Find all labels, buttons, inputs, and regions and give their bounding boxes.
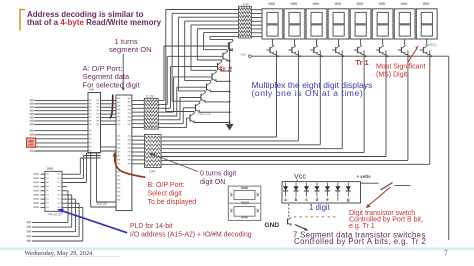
transistor QT8 digit driver	[420, 46, 432, 58]
label Tr 1	[356, 58, 369, 67]
curly arrow near A port label	[110, 95, 113, 119]
diode box - 7 segment LEDs of one digit	[282, 182, 361, 203]
7-segment display DS8	[414, 3, 437, 45]
svg-text:Controlled by Port A bits, e.g: Controlled by Port A bits, e.g. Tr 2	[294, 237, 426, 246]
svg-text:PLD for 14-bit: PLD for 14-bit	[130, 223, 173, 230]
IC U3 PLD address decoder	[34, 171, 67, 211]
label Vcc	[294, 172, 306, 181]
wire - control L down from U1 (left)	[91, 153, 116, 207]
transistor Q3 segment driver 2N2222	[178, 17, 238, 103]
label Most Significant (MS) Digit	[376, 64, 425, 79]
svg-text:0 turns digit: 0 turns digit	[200, 171, 236, 178]
transistor QT7 digit driver	[398, 46, 410, 58]
curly arrow near B port label	[113, 152, 146, 178]
label Tr 2	[219, 65, 233, 74]
svg-text:e.g. Tr 1: e.g. Tr 1	[349, 223, 375, 230]
7-segment display DS5	[348, 3, 371, 45]
label - 1 turns segment ON	[109, 37, 152, 54]
resistor pack RP3 segment resistors	[239, 6, 262, 38]
blue arrow to PLD	[57, 209, 127, 233]
svg-text:B: O/P Port:: B: O/P Port:	[148, 182, 185, 189]
label U3	[47, 168, 53, 170]
black arrow to 7 segment caption	[295, 225, 309, 231]
label RP2 value	[149, 168, 156, 173]
svg-text:(MS) Digit: (MS) Digit	[376, 72, 407, 79]
svg-text:Wednesday, May 29, 2024: Wednesday, May 29, 2024	[25, 250, 94, 257]
label MSD	[425, 42, 437, 47]
svg-text:Vcc: Vcc	[294, 172, 306, 181]
IC U2 82C55 port chip	[116, 95, 132, 211]
svg-text:For selected digit: For selected digit	[83, 80, 141, 89]
svg-text:10K: 10K	[149, 168, 156, 173]
svg-text:2.2K: 2.2K	[146, 93, 155, 98]
wire - base staircase RP1 to segment transistors	[161, 46, 229, 128]
label 74LS under PLD	[48, 212, 62, 216]
label RP1 value 2.2K	[146, 93, 155, 98]
svg-text:1 digit: 1 digit	[309, 203, 331, 212]
wire from diode box to switch	[361, 182, 379, 184]
arrow from 0-turns label to RP2	[150, 153, 198, 171]
resistor pack RP2	[145, 135, 162, 168]
svg-text:10K: 10K	[243, 2, 250, 6]
7-segment display DS6	[370, 3, 393, 45]
label 82C55	[97, 202, 108, 206]
diagram - single 7-segment digit layout	[228, 186, 260, 220]
7-segment display DS4	[326, 3, 349, 45]
label RP3 value	[243, 2, 250, 6]
svg-text:g: g	[347, 197, 350, 202]
transistor Q4 segment driver 2N2222	[185, 21, 239, 93]
label vcc left of rail	[241, 53, 252, 58]
wire bus - digit select lines RP2 to digit transistors	[161, 137, 430, 164]
transistor QT5 digit driver	[354, 46, 366, 58]
wire bus - data lines U1 to U2	[101, 100, 117, 124]
ground symbol	[226, 120, 234, 131]
svg-text:segment ON: segment ON	[109, 45, 152, 54]
svg-text:Tr 1: Tr 1	[356, 58, 369, 67]
IC U1 address latch	[88, 89, 101, 153]
svg-text:b: b	[295, 197, 298, 202]
label 0 turns digit ON	[200, 171, 236, 187]
footer page number	[444, 250, 448, 258]
title text line 1+2	[27, 10, 162, 27]
wire bus - address lines A15-A8 into latch	[30, 99, 88, 125]
wire bus - port A to resistor pack RP1	[132, 101, 144, 128]
svg-text:(only one is ON at a time): (only one is ON at a time)	[252, 88, 364, 98]
transistor Q2 segment driver 2N2222	[172, 13, 239, 113]
svg-text:GND: GND	[265, 222, 280, 229]
transistor QT2 digit driver	[288, 46, 300, 58]
svg-text:+ volts: + volts	[357, 174, 372, 179]
wire bus - port B to resistor pack RP2	[132, 136, 145, 164]
transistor QG common driver	[288, 217, 292, 225]
7-segment display DS2	[282, 3, 305, 45]
wire - digit transistor common rail	[251, 55, 449, 57]
svg-text:82C55: 82C55	[97, 202, 108, 206]
transistor Q7 segment driver 2N2222	[204, 33, 239, 62]
label Digit transistor switch caption	[349, 210, 423, 230]
svg-text:74LS138: 74LS138	[48, 212, 62, 216]
svg-text:Select digit: Select digit	[148, 191, 182, 198]
svg-text:To be displayed: To be displayed	[148, 199, 197, 206]
7-segment display DS1	[262, 3, 283, 45]
transistor QT4 digit driver	[332, 46, 344, 58]
footer divider band	[0, 247, 474, 256]
wire - common emitter rail	[229, 42, 231, 124]
transistor Q8 segment driver 2N2222	[210, 36, 239, 51]
label 1 digit	[309, 203, 331, 212]
label Multiplex the eight digit displays	[252, 80, 373, 98]
wire - far right vertical	[448, 56, 450, 240]
wire bus - bottom control lines to PLD	[27, 191, 83, 242]
resistor pack RP1 2.2K	[144, 98, 161, 129]
7-segment display DS7	[392, 3, 415, 45]
transistor QT3 digit driver	[310, 46, 322, 58]
svg-text:I/O address (A15-A2) + IO/#M d: I/O address (A15-A2) + IO/#M decoding	[130, 232, 252, 239]
svg-text:vcc: vcc	[241, 53, 247, 57]
svg-text:d: d	[316, 197, 319, 202]
label B O/P Port Select digit To be displayed	[148, 182, 197, 206]
wire - PLD outputs up to U1	[67, 153, 101, 183]
label 7 Segment data transistor switches caption	[293, 230, 426, 246]
svg-text:Most Significant: Most Significant	[376, 64, 425, 71]
label PLD for 14-bit I/O address	[130, 223, 252, 239]
label - A O/P Port Segment data For selected digit	[83, 64, 141, 89]
transistor QT6 digit driver	[376, 46, 388, 58]
svg-text:Tr 2: Tr 2	[219, 65, 233, 74]
transistor Q1 segment driver 2N2222	[166, 10, 239, 124]
switch contact diagonal	[381, 183, 411, 191]
wire Vcc to diode box	[296, 180, 298, 182]
label + volts	[357, 174, 372, 179]
red arrow from Digit transistor caption	[366, 187, 391, 208]
title bracket	[20, 10, 25, 31]
label GND	[265, 222, 280, 229]
svg-text:digit ON: digit ON	[200, 179, 225, 186]
orange dotted line	[294, 216, 338, 218]
pointer line from '1 turns segment ON' down	[122, 54, 125, 91]
wire bus - address/control lines lower group	[30, 130, 116, 152]
label 2N2222	[198, 112, 211, 116]
red highlight box on chip-select label	[27, 138, 36, 147]
svg-text:2N2222: 2N2222	[198, 112, 211, 116]
wire - digit select verticals	[277, 51, 430, 165]
wire - control L down from U1 (right)	[97, 153, 117, 203]
footer date	[25, 250, 94, 257]
7-segment display DS3	[304, 3, 327, 45]
transistor Q6 segment driver 2N2222	[197, 29, 238, 72]
svg-text:(MSD): (MSD)	[425, 42, 437, 47]
dashed wire below diode box	[288, 204, 290, 218]
red arrow to MS digit	[408, 45, 419, 62]
transistor QT1 digit driver	[267, 46, 279, 58]
svg-text:that of a 4-byte Read/Write me: that of a 4-byte Read/Write memory	[27, 18, 162, 27]
svg-text:7: 7	[444, 250, 448, 258]
transistor Q5 segment driver 2N2222	[191, 25, 239, 82]
